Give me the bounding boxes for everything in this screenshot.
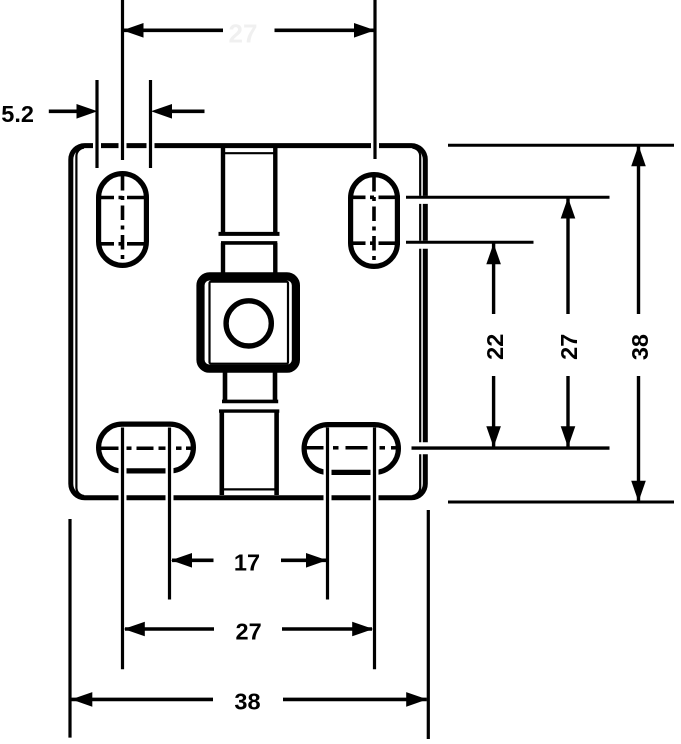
arrowhead 22 down xyxy=(486,426,501,447)
extension line bottom plate right edge xyxy=(427,510,430,739)
extension line right top plate edge xyxy=(448,144,674,147)
dimension 5.2 leader right xyxy=(168,110,205,114)
channel segment 2 left wall xyxy=(221,243,225,278)
channel segment 4 left wall xyxy=(220,411,225,495)
dimension 17 bottom line xyxy=(172,558,214,562)
extension line bottom slot-right outer center xyxy=(371,428,379,670)
dimension 22 line xyxy=(492,244,495,315)
arrowhead 5.2 right xyxy=(151,104,172,119)
channel segment 4 top cap xyxy=(219,409,279,412)
svg-text:38: 38 xyxy=(627,334,653,360)
plate inner edge left xyxy=(76,148,84,496)
svg-text:27: 27 xyxy=(229,19,258,49)
arrowhead 27 bottom left xyxy=(124,622,145,637)
svg-text:38: 38 xyxy=(234,689,260,715)
arrowhead 27 right up xyxy=(561,198,576,219)
dimension 38 right line xyxy=(637,145,640,314)
arrowhead 38 bottom left xyxy=(71,692,92,707)
extension line bottom slot-right inner center xyxy=(324,428,332,600)
channel segment 2 top cap xyxy=(221,241,277,245)
square boss inner line xyxy=(210,282,289,364)
channel segment 1 bottom cap xyxy=(219,232,280,236)
extension line top slot-right center (to top 27 dim) xyxy=(371,0,379,159)
arrowhead top 27 left xyxy=(123,23,144,38)
channel segment 4 bottom inner line xyxy=(224,488,275,490)
dimension 27 bottom line xyxy=(125,627,214,631)
square boss outer xyxy=(201,276,296,368)
arrowhead 27 bottom right xyxy=(352,622,373,637)
extension line bottom slot-left outer center xyxy=(119,428,127,670)
slot bottom-right horizontal centerline xyxy=(307,446,400,450)
channel segment 2 right wall xyxy=(273,243,277,278)
svg-text:22: 22 xyxy=(482,334,508,360)
extension line top slot-left center (to top 27 dim) xyxy=(119,0,127,160)
channel segment 4 right wall xyxy=(274,411,279,495)
svg-text:27: 27 xyxy=(556,334,582,360)
extension line bottom plate left edge xyxy=(68,519,71,738)
extension line right 27 upper xyxy=(406,197,610,200)
slot bottom-left horizontal centerline xyxy=(100,446,194,450)
channel segment 1 top inner line xyxy=(221,152,277,154)
svg-text:17: 17 xyxy=(234,550,260,576)
slot top-right xyxy=(351,175,398,267)
arrowhead 38 right up xyxy=(631,145,646,166)
hole circle xyxy=(226,301,271,346)
slot bottom-left xyxy=(99,424,194,471)
plate inner edge right xyxy=(413,148,421,496)
svg-text:27: 27 xyxy=(236,618,262,644)
arrowhead 5.2 left xyxy=(77,104,98,119)
channel segment 3 right wall xyxy=(273,367,278,402)
extension line right 22 upper xyxy=(406,242,534,245)
slot bottom-right xyxy=(304,425,398,473)
channel segment 1 right wall xyxy=(273,148,277,234)
arrowhead 38 bottom right xyxy=(406,692,427,707)
arrowhead 38 right down xyxy=(631,481,646,502)
dimension 27 right line xyxy=(566,198,569,314)
arrowhead 17 right xyxy=(306,553,327,568)
arrowhead 17 left xyxy=(171,553,192,568)
dimension 27 top line xyxy=(124,28,223,32)
svg-text:5.2: 5.2 xyxy=(1,101,34,127)
slot top-left upper cross centerline xyxy=(101,196,144,200)
slot top-left lower cross centerline xyxy=(101,242,144,246)
extension line 5.2 left xyxy=(93,80,101,168)
slot top-left vertical centerline xyxy=(121,176,125,266)
arrowhead top 27 right xyxy=(354,23,375,38)
plate outline xyxy=(71,146,426,498)
dimension 38 bottom line xyxy=(72,698,214,702)
extension line bottom slot-left inner center xyxy=(166,428,174,600)
channel segment 3 bottom cap xyxy=(222,400,278,404)
slot top-left xyxy=(99,174,147,266)
channel segment 1 left wall xyxy=(221,148,225,234)
slot top-right lower cross centerline xyxy=(353,241,401,245)
extension line right bottom plate edge xyxy=(448,501,674,504)
extension line 5.2 right xyxy=(147,80,155,168)
slot top-right vertical centerline xyxy=(372,177,376,267)
extension line right bottom-slot centerline xyxy=(412,442,610,454)
channel segment 3 left wall xyxy=(223,367,228,402)
arrowhead 22 up xyxy=(486,243,501,264)
dimension 5.2 leader left xyxy=(49,110,80,114)
arrowhead 27 right down xyxy=(561,426,576,447)
slot top-right upper cross centerline xyxy=(353,196,401,200)
